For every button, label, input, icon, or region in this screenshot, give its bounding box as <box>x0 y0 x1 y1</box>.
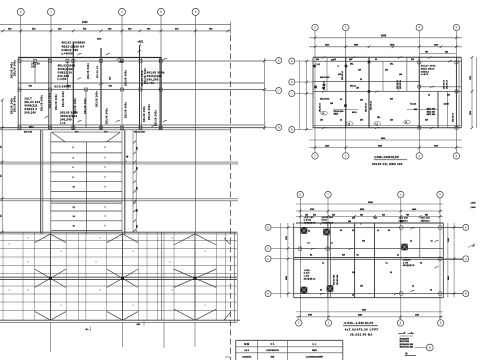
BR plan bottom edge <box>294 297 444 299</box>
grid line 1 <box>50 15 52 130</box>
svg-text:4B12 240: 4B12 240 <box>427 110 437 113</box>
BR right arrow mark <box>472 244 476 246</box>
svg-text:7: 7 <box>105 167 106 169</box>
svg-text:5: 5 <box>456 26 458 30</box>
TR bottom grid bubbles <box>312 153 318 159</box>
left dimension line <box>1 100 3 232</box>
TR oval tags <box>321 111 328 115</box>
svg-text:L2: L2 <box>386 263 388 265</box>
stair right dim pair <box>132 130 134 232</box>
grid line 5 <box>160 15 162 130</box>
svg-text:24: 24 <box>334 58 336 61</box>
roof right edge double line <box>233 232 235 322</box>
svg-text:280: 280 <box>137 187 139 190</box>
svg-text:2KL06 240x: 2KL06 240x <box>125 101 128 118</box>
svg-text:9240: 9240 <box>381 137 385 140</box>
svg-text:2: 2 <box>20 10 22 14</box>
svg-text:2980: 2980 <box>360 209 364 211</box>
svg-text:240 140: 240 140 <box>24 131 33 134</box>
BR column circles <box>298 247 302 251</box>
svg-text:240: 240 <box>316 58 319 61</box>
TR leader hooks <box>322 57 326 59</box>
svg-text:C2: C2 <box>116 320 118 322</box>
svg-text:2KL06 240x: 2KL06 240x <box>96 90 99 107</box>
BR hatched columns <box>301 227 308 234</box>
svg-text:240: 240 <box>348 220 351 223</box>
vertical dim line right of TL plan <box>264 58 266 130</box>
svg-text:140: 140 <box>320 119 323 122</box>
svg-text:2KL06 240: 2KL06 240 <box>333 274 336 285</box>
BR row E line <box>294 226 463 228</box>
BR top grid bubbles <box>297 191 303 197</box>
svg-text:24: 24 <box>375 58 377 61</box>
svg-text:140: 140 <box>362 240 365 243</box>
svg-text:14: 14 <box>430 289 432 292</box>
svg-text:9240: 9240 <box>381 35 387 38</box>
svg-text:2KZ 140: 2KZ 140 <box>421 217 431 220</box>
row bubble D right col <box>289 79 295 85</box>
svg-text:C2: C2 <box>99 238 101 240</box>
svg-text:L1: L1 <box>322 263 324 265</box>
TR nested left dims <box>299 61 301 130</box>
svg-text:1.640: 1.640 <box>471 206 477 209</box>
svg-text:240,240: 240,240 <box>58 74 70 78</box>
svg-text:2: 2 <box>298 321 300 325</box>
svg-text:2KL06 240x: 2KL06 240x <box>125 69 128 86</box>
svg-text:7: 7 <box>105 177 106 179</box>
detail B steps <box>398 333 405 335</box>
svg-text:4000(2)B2: 4000(2)B2 <box>58 67 74 71</box>
svg-text:2B12@200: 2B12@200 <box>400 339 410 341</box>
svg-text:4B(B)B12: 4B(B)B12 <box>304 222 316 225</box>
svg-text:2KL06 240x: 2KL06 240x <box>155 109 158 126</box>
svg-text:4: 4 <box>400 321 402 325</box>
svg-text:2KL06 24: 2KL06 24 <box>370 100 373 110</box>
svg-text:C20/C25/C30: C20/C25/C30 <box>266 350 279 352</box>
svg-text:2: 2 <box>314 26 316 30</box>
TR bottom dim lines <box>309 139 462 141</box>
TL leader hooks <box>78 54 82 56</box>
svg-text:240: 240 <box>349 58 352 61</box>
svg-text:7: 7 <box>105 147 106 149</box>
BR row C thick line <box>294 257 444 259</box>
svg-text:4B22 2B20: 4B22 2B20 <box>421 67 435 70</box>
svg-text:Track2: Track2 <box>410 104 416 106</box>
roof joist verticals <box>2 232 4 320</box>
svg-text:2KL06 24: 2KL06 24 <box>396 79 399 89</box>
svg-text:2KL06 240x: 2KL06 240x <box>62 90 65 107</box>
svg-text:2: 2 <box>314 154 316 158</box>
svg-text:L=4: L=4 <box>60 121 66 125</box>
svg-text:G4B12 200: G4B12 200 <box>62 48 79 52</box>
svg-text:4B12 B140 2B0: 4B12 B140 2B0 <box>400 346 414 349</box>
svg-text:5280: 5280 <box>378 145 382 147</box>
svg-text:2KL06: 2KL06 <box>31 64 40 66</box>
svg-text:C2: C2 <box>169 262 171 264</box>
svg-text:280: 280 <box>137 225 139 228</box>
roof hip motif at x=195 <box>174 234 217 320</box>
svg-text:240: 240 <box>322 87 325 90</box>
svg-text:4KL07 300b: 4KL07 300b <box>421 65 437 68</box>
svg-text:1: 1 <box>345 154 347 158</box>
svg-text:2KL06 240x: 2KL06 240x <box>11 97 14 114</box>
TR row C partial <box>419 86 461 88</box>
svg-text:2x: 2x <box>397 255 399 257</box>
svg-text:C 1: C 1 <box>270 343 275 346</box>
svg-text:1.54/2: 1.54/2 <box>304 219 312 222</box>
svg-text:24: 24 <box>360 78 362 81</box>
svg-text:5400: 5400 <box>390 44 394 47</box>
svg-text:4KL03 3008600: 4KL03 3008600 <box>62 41 86 45</box>
floor line upper <box>0 161 238 163</box>
svg-text:2KL06 240x: 2KL06 240x <box>148 103 151 120</box>
svg-text:B1: B1 <box>310 255 312 257</box>
svg-text:780: 780 <box>406 214 409 216</box>
svg-text:E: E <box>291 59 293 63</box>
svg-text:140: 140 <box>374 217 377 220</box>
BR row D line <box>294 248 444 250</box>
svg-text:2KL06 240x: 2KL06 240x <box>74 97 77 114</box>
TR left edge <box>312 57 314 128</box>
svg-text:C2: C2 <box>27 290 29 292</box>
svg-text:2KL04 240: 2KL04 240 <box>334 110 345 113</box>
svg-text:C2: C2 <box>188 320 190 322</box>
svg-text:C2: C2 <box>27 262 29 264</box>
svg-text:B1: B1 <box>357 255 359 257</box>
svg-text:240,240: 240,240 <box>60 117 72 121</box>
svg-text:1ALT: 1ALT <box>24 97 32 101</box>
svg-text:2100: 2100 <box>286 236 288 240</box>
row bubble E left col <box>265 60 276 62</box>
svg-text:1.7B: 1.7B <box>403 262 409 264</box>
svg-text:2180: 2180 <box>325 145 329 147</box>
svg-text:140: 140 <box>356 87 359 90</box>
svg-text:C2: C2 <box>60 251 62 253</box>
svg-text:2B12@200 2B0: 2B12@200 2B0 <box>400 344 414 346</box>
svg-text:M M: M M <box>244 343 249 346</box>
svg-text:2KL06 240x: 2KL06 240x <box>40 94 43 111</box>
svg-text:5: 5 <box>456 154 458 158</box>
svg-text:1300: 1300 <box>470 111 472 115</box>
svg-text:240: 240 <box>360 119 363 122</box>
svg-text:2KL06 24: 2KL06 24 <box>452 112 455 122</box>
svg-text:-0.540~-1.540 KLPZ: -0.540~-1.540 KLPZ <box>343 321 373 325</box>
TR top dim lines <box>309 37 462 39</box>
svg-text:540: 540 <box>360 213 363 216</box>
stair wall blob <box>126 156 128 158</box>
svg-text:12: 12 <box>352 295 354 297</box>
roof right edge hip details <box>224 312 231 320</box>
svg-text:2KL06 240x: 2KL06 240x <box>84 97 87 114</box>
stair right wall <box>124 130 126 234</box>
BR left dim lines <box>280 223 282 298</box>
svg-text:B: B <box>278 126 280 130</box>
row E line <box>18 60 265 62</box>
TL right wall <box>159 58 161 130</box>
svg-text:140: 140 <box>358 69 361 72</box>
svg-text:C2: C2 <box>95 262 97 264</box>
svg-text:G4B12: G4B12 <box>421 70 430 73</box>
TL beam x86 <box>85 90 87 128</box>
svg-text:2KL04 240: 2KL04 240 <box>24 100 40 104</box>
svg-text:G4B12 2: G4B12 2 <box>24 107 37 111</box>
svg-text:240,240: 240,240 <box>147 77 159 81</box>
svg-text:1300: 1300 <box>434 45 438 47</box>
stair break diagonals <box>51 132 65 142</box>
svg-text:12: 12 <box>412 286 414 288</box>
svg-text:4B12 240: 4B12 240 <box>427 113 437 116</box>
svg-text:2KL04 240: 2KL04 240 <box>134 131 146 134</box>
svg-text:7: 7 <box>105 158 106 160</box>
svg-text:240: 240 <box>414 108 417 111</box>
roof beam double line <box>161 232 163 320</box>
svg-text:B: B <box>429 346 431 350</box>
svg-text:1440: 1440 <box>412 208 416 211</box>
svg-text:L=200: L=200 <box>58 77 67 81</box>
svg-text:2KL06 240x: 2KL06 240x <box>14 95 17 112</box>
svg-text:KL1: KL1 <box>317 64 321 66</box>
svg-text:4: 4 <box>400 193 402 197</box>
svg-text:14: 14 <box>431 240 433 243</box>
svg-text:2.0/2: 2.0/2 <box>304 273 311 275</box>
TR column circles <box>418 61 421 64</box>
svg-text:140: 140 <box>400 220 403 223</box>
svg-text:4000(2)22: 4000(2)22 <box>147 74 162 78</box>
svg-text:L=40: L=40 <box>147 81 155 85</box>
BR top dim lines <box>296 210 443 212</box>
svg-text:2KL06 240x: 2KL06 240x <box>106 107 109 124</box>
svg-text:780: 780 <box>425 51 428 53</box>
svg-text:2KL06 24: 2KL06 24 <box>399 79 402 89</box>
row bubble C left col <box>265 90 276 92</box>
svg-text:C2: C2 <box>204 251 206 253</box>
svg-text:2KL06 240: 2KL06 240 <box>336 274 339 285</box>
svg-text:140: 140 <box>390 119 393 122</box>
svg-text:24: 24 <box>340 98 342 101</box>
svg-text:4KL05 300b: 4KL05 300b <box>147 71 165 75</box>
svg-text:2KL06 240x: 2KL06 240x <box>11 61 14 78</box>
svg-text:24: 24 <box>388 229 390 232</box>
svg-text:4B12 240: 4B12 240 <box>427 108 437 111</box>
roof bottom chord <box>0 319 240 321</box>
svg-text:(B.A20.50-BA: (B.A20.50-BA <box>350 333 372 337</box>
BR left row bubbles <box>265 224 271 230</box>
svg-text:5280: 5280 <box>358 315 362 317</box>
BR right row bubbles <box>463 224 469 230</box>
svg-text:7: 7 <box>105 187 106 189</box>
svg-text:2KL06 24: 2KL06 24 <box>446 79 449 89</box>
svg-text:7: 7 <box>105 216 106 218</box>
roof ridge double line <box>0 276 237 278</box>
TR row D <box>313 81 420 83</box>
BR overall top dim <box>296 203 443 205</box>
svg-text:4KL02 2408: 4KL02 2408 <box>58 63 76 67</box>
svg-text:L8: L8 <box>308 243 310 245</box>
svg-text:24: 24 <box>320 289 322 292</box>
BR bottom grid bubbles <box>296 320 302 326</box>
svg-text:2KL06 24: 2KL06 24 <box>341 70 344 80</box>
svg-text:140: 140 <box>360 285 363 288</box>
svg-text:1: 1 <box>50 10 52 14</box>
TL beam x73 <box>72 44 74 130</box>
BR right edge <box>442 223 444 298</box>
stair center line <box>86 142 88 234</box>
TR right dim lines <box>471 57 473 128</box>
svg-text:C2: C2 <box>116 238 118 240</box>
stair flight left edge <box>50 132 52 232</box>
svg-text:3480: 3480 <box>447 276 450 280</box>
svg-text:C2: C2 <box>204 305 206 307</box>
svg-text:C2: C2 <box>132 305 134 307</box>
svg-text:E: E <box>278 59 280 63</box>
stair top break line <box>51 131 120 133</box>
svg-text:2KL06 240x: 2KL06 240x <box>141 70 144 87</box>
svg-text:1440: 1440 <box>415 314 419 317</box>
svg-text:40B: 40B <box>270 355 274 358</box>
dimension line segments TL <box>0 30 231 32</box>
TL beam x67 <box>66 61 68 90</box>
svg-text:B: B <box>291 128 293 132</box>
svg-text:2980: 2980 <box>354 45 358 47</box>
svg-text:1300: 1300 <box>434 145 438 147</box>
TL beam grid1 wall <box>48 58 50 130</box>
svg-text:M: M <box>126 160 128 162</box>
svg-text:B-: B- <box>406 352 409 355</box>
TR bottom wall <box>313 124 461 126</box>
svg-text:C2: C2 <box>188 238 190 240</box>
svg-text:240: 240 <box>342 254 345 257</box>
svg-text:240: 240 <box>385 69 388 72</box>
svg-text:L1: L1 <box>376 123 378 125</box>
BR row B line <box>294 293 463 295</box>
svg-text:C2: C2 <box>8 244 10 246</box>
svg-text:C2: C2 <box>44 238 46 240</box>
svg-text:L1: L1 <box>322 113 324 115</box>
TL plan bottom wall lines <box>0 127 265 129</box>
svg-text:C2: C2 <box>171 290 173 292</box>
svg-text:2180: 2180 <box>325 45 329 47</box>
svg-text:2KL06 24: 2KL06 24 <box>96 66 99 78</box>
TR right room beams <box>407 109 438 111</box>
svg-text:24: 24 <box>340 119 342 122</box>
svg-text:2KL06 240x: 2KL06 240x <box>49 92 52 109</box>
row B line <box>18 124 265 126</box>
TR row C <box>313 90 461 92</box>
svg-text:4000(2)2: 4000(2)2 <box>24 103 37 107</box>
row bubble C right col <box>289 91 295 97</box>
svg-text:280: 280 <box>137 209 139 212</box>
svg-text:286: 286 <box>425 214 428 216</box>
svg-text:B: B <box>267 292 269 296</box>
dimension line overall TL <box>0 23 231 25</box>
row C line <box>18 89 265 91</box>
svg-text:7200: 7200 <box>470 76 472 80</box>
stair treads <box>51 141 122 143</box>
svg-text:240: 240 <box>390 98 393 101</box>
svg-text:14: 14 <box>308 230 310 233</box>
verticals extending below roof <box>49 322 51 352</box>
grid line 6 <box>195 15 197 233</box>
roof hip motif at x=122.5 <box>107 234 139 320</box>
svg-text:W2/0: W2/0 <box>312 350 318 352</box>
svg-text:240: 240 <box>411 58 414 61</box>
svg-text:2KL0: 2KL0 <box>29 126 34 128</box>
svg-text:280: 280 <box>137 167 139 170</box>
svg-text:12: 12 <box>352 230 354 232</box>
svg-text:4KL05 240: 4KL05 240 <box>320 76 329 79</box>
row bubble B left col <box>265 127 276 129</box>
TL beam x35 <box>34 61 36 83</box>
svg-text:7: 7 <box>105 226 106 228</box>
roof purlin lines <box>0 240 237 242</box>
svg-text:286: 286 <box>445 51 448 53</box>
svg-text:5: 5 <box>160 10 162 14</box>
svg-text:2KL08 300: 2KL08 300 <box>320 99 329 101</box>
svg-text:1.4B: 1.4B <box>304 275 310 278</box>
svg-text:1340: 1340 <box>82 21 88 24</box>
svg-text:24: 24 <box>420 262 422 265</box>
svg-text:2780: 2780 <box>308 315 312 317</box>
detail B bubble <box>426 344 433 351</box>
svg-text:C2: C2 <box>8 290 10 292</box>
svg-text:E: E <box>465 225 467 229</box>
svg-text:4B12 B200: 4B12 B200 <box>400 340 410 343</box>
svg-text:5A/2: 5A/2 <box>322 219 328 222</box>
grid line 2 <box>20 15 22 130</box>
svg-text:120(/130): 120(/130) <box>242 356 251 358</box>
svg-text:4KL0: 4KL0 <box>352 111 357 114</box>
BR right dim lines <box>447 223 449 298</box>
TL plan top wall <box>18 57 162 59</box>
svg-text:4KD: 4KD <box>97 38 102 41</box>
svg-text:240: 240 <box>382 213 385 216</box>
svg-text:2KL06 24: 2KL06 24 <box>319 102 322 112</box>
svg-text:2KL06 24: 2KL06 24 <box>365 102 368 112</box>
svg-text:4B(B)B12: 4B(B)B12 <box>304 278 316 281</box>
TL beam x140 pair <box>139 45 141 130</box>
svg-text:240: 240 <box>360 99 363 102</box>
svg-text:7: 7 <box>105 207 106 209</box>
svg-text:1.540: 1.540 <box>471 201 477 204</box>
match line dashed <box>230 35 232 360</box>
svg-text:4: 4 <box>418 154 420 158</box>
row bubble B right col <box>289 127 295 133</box>
svg-text:1: 1 <box>327 193 329 197</box>
svg-text:140: 140 <box>352 271 355 274</box>
svg-text:2KL06 240x: 2KL06 240x <box>14 59 17 76</box>
BR left edge <box>293 223 295 298</box>
svg-text:2KL06 240x: 2KL06 240x <box>143 105 146 122</box>
svg-text:C2: C2 <box>60 305 62 307</box>
BR plan top edge <box>296 222 443 224</box>
svg-text:2KL06 240x: 2KL06 240x <box>87 62 90 79</box>
TR interior verticals <box>326 57 328 91</box>
svg-text:+KZ 240: +KZ 240 <box>399 217 409 220</box>
roof bottom arrow mark <box>85 328 89 330</box>
svg-text:L2: L2 <box>377 230 379 232</box>
svg-text:240: 240 <box>352 217 355 220</box>
svg-text:240,240: 240,240 <box>24 110 36 114</box>
svg-text:+KC1: +KC1 <box>138 42 145 44</box>
svg-text:B: B <box>465 292 467 296</box>
floor line lower <box>0 198 238 200</box>
svg-text:3x240: 3x240 <box>444 103 449 106</box>
svg-text:4B22+2B20 G4: 4B22+2B20 G4 <box>62 44 85 48</box>
svg-text:G4B12 20: G4B12 20 <box>58 70 73 74</box>
svg-text:12: 12 <box>410 241 412 243</box>
svg-text:9240: 9240 <box>368 201 374 204</box>
svg-text:3120: 3120 <box>448 238 450 242</box>
